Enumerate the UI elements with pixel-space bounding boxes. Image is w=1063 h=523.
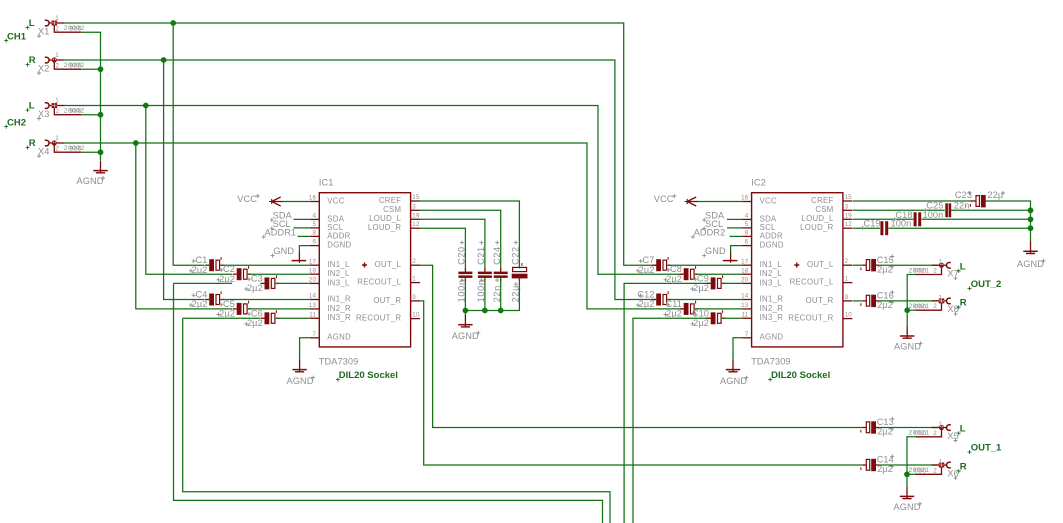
wire cap bottoms to AGND junction line xyxy=(465,278,519,311)
svg-text:2: 2 xyxy=(56,25,60,32)
wire net to IC1 IN3_L from bottom edge xyxy=(174,282,233,284)
svg-text:VCC: VCC xyxy=(654,194,674,204)
svg-text:13: 13 xyxy=(741,302,749,309)
svg-text:8: 8 xyxy=(745,230,749,237)
wire C7 to IC2 pin xyxy=(668,264,742,266)
op-amp/IC IC1 TDA7309 box xyxy=(319,193,410,347)
svg-text:IN1_R: IN1_R xyxy=(760,294,784,303)
svg-text:VCC: VCC xyxy=(237,194,257,204)
pin 5 (SCL) of IC2 xyxy=(742,221,776,232)
svg-text:1: 1 xyxy=(55,15,59,22)
junction OUT_1 ground xyxy=(904,471,910,477)
svg-text:2: 2 xyxy=(56,108,60,115)
pin 10 (RECOUT_R) of IC1 xyxy=(356,312,420,323)
svg-text:VCC: VCC xyxy=(760,196,777,205)
svg-text:TDA7309: TDA7309 xyxy=(319,356,359,366)
junction at C24 bottom xyxy=(498,308,504,314)
svg-text:X8: X8 xyxy=(947,304,958,314)
wire SDA to IC2 xyxy=(727,218,742,220)
svg-text:15: 15 xyxy=(412,194,420,201)
ground AGND xyxy=(900,487,914,499)
svg-text:DGND: DGND xyxy=(760,241,784,250)
svg-text:900: 900 xyxy=(69,26,82,33)
svg-text:20: 20 xyxy=(741,277,749,284)
wire X4 pin2 to ground bus xyxy=(81,151,101,153)
svg-text:2µ2: 2µ2 xyxy=(693,283,709,293)
power VCC xyxy=(685,197,699,206)
wire IC2 OUT_R to C16 xyxy=(853,300,862,302)
svg-text:C3: C3 xyxy=(251,273,263,283)
pin 15 (CREF) of IC2 xyxy=(811,194,852,205)
svg-text:IC2: IC2 xyxy=(751,178,766,188)
wire C13 to X5 xyxy=(879,427,939,429)
svg-text:AGND: AGND xyxy=(77,176,104,186)
wire ADDR2 to IC2 xyxy=(730,235,743,237)
svg-text:C2: C2 xyxy=(223,264,235,274)
pin 19 (LOUD_L) of IC1 xyxy=(369,212,420,223)
svg-text:R: R xyxy=(29,138,36,149)
capacitor C24 xyxy=(494,268,508,282)
wire VCC to IC2 pin 16 xyxy=(698,201,742,203)
svg-text:CH2: CH2 xyxy=(7,117,26,128)
svg-text:LOUD_L: LOUD_L xyxy=(369,214,401,223)
svg-text:RECOUT_R: RECOUT_R xyxy=(356,314,401,323)
pin 1 (RECOUT_L) of IC1 xyxy=(357,276,420,287)
capacitor C13 (2u2) xyxy=(861,421,879,433)
svg-text:C6: C6 xyxy=(251,308,263,318)
junction CH2-R xyxy=(133,140,139,146)
svg-text:2µ2: 2µ2 xyxy=(219,309,235,319)
svg-text:1: 1 xyxy=(939,421,943,428)
wire net to IC1 IN3_R from bottom edge xyxy=(183,317,260,319)
pin 6 (DGND) of IC1 xyxy=(310,239,352,250)
capacitor C4 (2u2) xyxy=(205,291,224,305)
svg-text:C20: C20 xyxy=(457,246,467,265)
capacitor C25 (22n) xyxy=(945,203,951,217)
wire IC2 LOUD_R through C19 xyxy=(853,227,880,229)
pin 13 (IN2_R) of IC2 xyxy=(741,302,783,313)
svg-text:DGND: DGND xyxy=(327,241,351,250)
wire IC1 OUT_R long route to C14 xyxy=(420,301,862,465)
pin 3 (CSM) of IC1 xyxy=(383,203,420,214)
svg-text:LOUD_R: LOUD_R xyxy=(800,223,833,232)
svg-text:ADDR: ADDR xyxy=(327,231,350,240)
svg-text:C4: C4 xyxy=(196,290,208,300)
svg-text:2: 2 xyxy=(56,145,60,152)
capacitor C9 (2u2) xyxy=(707,275,726,289)
svg-text:5: 5 xyxy=(745,221,749,228)
svg-text:C9: C9 xyxy=(697,273,709,283)
svg-text:C7: C7 xyxy=(643,255,655,265)
svg-text:3: 3 xyxy=(845,203,849,210)
svg-text:14: 14 xyxy=(741,293,749,300)
junction CSM rail xyxy=(1028,207,1034,213)
svg-text:IN1_R: IN1_R xyxy=(327,294,351,303)
svg-text:900: 900 xyxy=(69,146,82,153)
junction CH1-R xyxy=(161,57,167,63)
wire SCL to IC2 xyxy=(727,227,742,229)
capacitor C12 (2u2) xyxy=(652,291,671,305)
capacitor C16 (2u2) xyxy=(861,295,879,307)
svg-text:12: 12 xyxy=(412,221,420,228)
svg-text:IN3_R: IN3_R xyxy=(760,313,784,322)
svg-text:CSM: CSM xyxy=(383,205,401,214)
svg-text:10: 10 xyxy=(412,312,420,319)
svg-text:2: 2 xyxy=(933,268,937,275)
pin 7 (AGND) of IC1 xyxy=(310,331,351,342)
pin 2 (OUT_L) of IC2 xyxy=(807,258,852,269)
connector X2 (audio plug) xyxy=(45,57,81,69)
svg-text:13: 13 xyxy=(309,302,317,309)
wire C11 to IC2 pin xyxy=(696,308,743,310)
svg-text:11: 11 xyxy=(742,311,749,318)
svg-text:18: 18 xyxy=(741,267,749,274)
svg-text:TDA7309: TDA7309 xyxy=(751,356,791,366)
wire net to IC2 IN3_L from bottom edge xyxy=(624,283,710,523)
wire C3 to IC1 pin xyxy=(276,282,310,284)
pin 19 (LOUD_L) of IC2 xyxy=(801,212,852,223)
wire C16 to X8 xyxy=(879,300,939,302)
svg-text:2µ2: 2µ2 xyxy=(666,274,682,284)
pin 9 (OUT_R) of IC1 xyxy=(373,294,420,305)
capacitor C14 (2u2) xyxy=(861,459,879,471)
svg-text:7: 7 xyxy=(312,331,316,338)
connector X4 (audio plug) xyxy=(45,140,81,152)
svg-text:090: 090 xyxy=(914,430,927,437)
ground AGND xyxy=(1023,242,1037,254)
wire C1 to IC1 pin xyxy=(221,264,310,266)
wire SCL to IC1 xyxy=(294,227,310,229)
svg-text:2µ2: 2µ2 xyxy=(247,318,263,328)
junction LOUD_L rail xyxy=(1028,216,1034,222)
svg-text:ADDR2: ADDR2 xyxy=(694,227,726,237)
svg-text:22µ: 22µ xyxy=(988,190,1004,200)
svg-text:16: 16 xyxy=(309,195,317,202)
pin 20 (IN3_L) of IC2 xyxy=(741,277,782,288)
svg-text:VCC: VCC xyxy=(327,196,344,205)
svg-text:2µ2: 2µ2 xyxy=(877,264,893,274)
svg-text:1: 1 xyxy=(845,276,849,283)
svg-text:900: 900 xyxy=(69,63,82,70)
svg-text:11: 11 xyxy=(309,311,316,318)
pin 14 (IN1_R) of IC1 xyxy=(309,293,351,304)
wire SDA to IC1 xyxy=(294,218,310,220)
pin 17 (IN1_L) of IC2 xyxy=(741,258,782,269)
svg-text:IN2_L: IN2_L xyxy=(760,269,783,278)
svg-text:2µ2: 2µ2 xyxy=(639,299,655,309)
svg-text:1: 1 xyxy=(939,458,943,465)
svg-text:X2: X2 xyxy=(38,63,49,73)
svg-text:C10: C10 xyxy=(692,308,709,318)
capacitor C8 (2u2) xyxy=(680,266,699,280)
capacitor C11 (2u2) xyxy=(680,301,699,315)
svg-text:GND: GND xyxy=(705,246,726,256)
svg-text:X7: X7 xyxy=(947,269,958,279)
svg-text:1: 1 xyxy=(412,276,416,283)
pin 10 (RECOUT_R) of IC2 xyxy=(788,312,852,323)
pin 3 (CSM) of IC2 xyxy=(815,203,852,214)
svg-text:16: 16 xyxy=(741,195,749,202)
svg-text:C22: C22 xyxy=(511,246,521,265)
svg-text:X4: X4 xyxy=(38,146,49,156)
svg-text:X5: X5 xyxy=(947,431,958,441)
wire branch CH2-L down to C2 xyxy=(146,106,232,275)
svg-text:22n: 22n xyxy=(954,201,970,211)
ground AGND xyxy=(900,326,914,338)
svg-text:GND: GND xyxy=(273,246,294,256)
svg-text:AGND: AGND xyxy=(327,333,351,342)
pin 6 (DGND) of IC2 xyxy=(742,239,784,250)
pin 1 (RECOUT_L) of IC2 xyxy=(790,276,853,287)
wire ground bus of input connectors xyxy=(81,32,101,160)
pin 18 (IN2_L) of IC2 xyxy=(741,267,782,278)
svg-text:2: 2 xyxy=(933,467,937,474)
svg-text:RECOUT_L: RECOUT_L xyxy=(357,278,401,287)
junction CH1-L xyxy=(170,20,176,26)
wire IC1 LOUD_L to C21 xyxy=(420,219,485,268)
wire C15 to X7 xyxy=(879,264,939,266)
svg-text:CREF: CREF xyxy=(811,196,833,205)
svg-text:1: 1 xyxy=(55,98,59,105)
svg-text:2: 2 xyxy=(845,258,849,265)
junction CH2-L xyxy=(143,103,149,109)
svg-text:2µ2: 2µ2 xyxy=(877,300,893,310)
pin 17 (IN1_L) of IC1 xyxy=(309,258,350,269)
wire AGND drop of cap bank xyxy=(464,311,466,316)
svg-text:2µ2: 2µ2 xyxy=(247,283,263,293)
wire X5/X6 grounds to AGND xyxy=(907,437,916,487)
wire IC2 OUT_L to C15 xyxy=(853,264,862,266)
wire C9 to IC2 pin xyxy=(723,282,743,284)
svg-text:OUT_1: OUT_1 xyxy=(971,443,1002,454)
pin 20 (IN3_L) of IC1 xyxy=(309,277,350,288)
capacitor C6 (2u2) xyxy=(261,310,280,324)
svg-text:1: 1 xyxy=(55,52,59,59)
origin cross of IC2 xyxy=(794,263,799,268)
wire IC1 pin 7 AGND down xyxy=(300,338,310,360)
wire C8 to IC2 pin xyxy=(696,273,743,275)
svg-text:CSM: CSM xyxy=(815,205,833,214)
svg-text:DIL20 Sockel: DIL20 Sockel xyxy=(771,370,830,381)
junction at C21 bottom xyxy=(482,308,488,314)
wire X2 pin2 to ground bus xyxy=(81,68,101,70)
svg-text:17: 17 xyxy=(309,258,317,265)
svg-text:C1: C1 xyxy=(196,255,208,265)
svg-text:ADDR1: ADDR1 xyxy=(265,227,297,237)
svg-text:CREF: CREF xyxy=(379,196,401,205)
svg-text:RECOUT_R: RECOUT_R xyxy=(788,314,833,323)
svg-text:1: 1 xyxy=(939,259,943,266)
svg-text:AGND: AGND xyxy=(894,502,921,512)
svg-text:9: 9 xyxy=(412,294,416,301)
wire net CH2-R from X4 xyxy=(64,143,683,309)
capacitor C21 xyxy=(478,268,492,282)
svg-text:R: R xyxy=(960,298,967,309)
svg-text:C24: C24 xyxy=(492,246,502,265)
pin 4 (SDA) of IC2 xyxy=(742,213,777,224)
svg-text:090: 090 xyxy=(914,468,927,475)
svg-text:2µ2: 2µ2 xyxy=(666,309,682,319)
wire ADDR1 to IC1 xyxy=(298,235,310,237)
wire C6 to IC1 pin xyxy=(276,317,310,319)
wire net CH1-R from X2 xyxy=(64,60,656,300)
svg-text:2µ2: 2µ2 xyxy=(192,299,208,309)
svg-text:IN3_L: IN3_L xyxy=(760,278,783,287)
svg-text:IN2_R: IN2_R xyxy=(327,304,351,313)
wire net CH2-L from X3 xyxy=(64,106,683,275)
capacitor C2 (2u2) xyxy=(233,266,252,280)
svg-text:17: 17 xyxy=(741,258,749,265)
svg-text:1: 1 xyxy=(55,135,59,142)
wire C5 to IC1 pin xyxy=(249,308,310,310)
ground AGND xyxy=(726,360,740,372)
svg-text:RECOUT_L: RECOUT_L xyxy=(790,278,834,287)
svg-text:3: 3 xyxy=(412,203,416,210)
wire branch CH2-R down to C5 xyxy=(136,143,232,309)
junction ground bus at X3 xyxy=(98,112,104,118)
pin 11 (IN3_R) of IC2 xyxy=(742,311,784,322)
junction at C20 bottom / AGND drop xyxy=(463,308,469,314)
wire IC1 OUT_L long route to C13 xyxy=(420,265,862,427)
svg-text:2: 2 xyxy=(56,62,60,69)
svg-text:R: R xyxy=(29,55,36,66)
svg-text:4: 4 xyxy=(745,213,749,220)
svg-text:ADDR: ADDR xyxy=(760,231,783,240)
svg-text:2: 2 xyxy=(933,430,937,437)
svg-text:C19: C19 xyxy=(864,218,881,228)
origin cross of IC1 xyxy=(362,263,367,268)
svg-text:IN3_L: IN3_L xyxy=(327,278,350,287)
pin 7 (AGND) of IC2 xyxy=(742,331,783,342)
wire VCC to IC1 pin 16 xyxy=(283,201,310,203)
svg-text:9: 9 xyxy=(845,294,849,301)
svg-text:6: 6 xyxy=(745,239,749,246)
svg-text:19: 19 xyxy=(412,212,420,219)
capacitor C18 (100n) xyxy=(914,212,922,226)
capacitor C22 (polarized 22u) xyxy=(512,263,528,282)
svg-text:2: 2 xyxy=(412,258,416,265)
connector X7 (audio plug, mirrored) xyxy=(916,263,951,275)
connector X6 (audio plug, mirrored) xyxy=(916,462,951,474)
pin 16 (VCC) of IC2 xyxy=(741,195,777,206)
wire IC1 CREF to C22 xyxy=(420,201,519,268)
pin 8 (ADDR) of IC1 xyxy=(310,230,351,241)
svg-text:IN1_L: IN1_L xyxy=(760,260,783,269)
wire IC2 pin 7 AGND down xyxy=(733,338,742,360)
wire IC2 CREF through C23 to AGND rail xyxy=(853,200,972,202)
svg-text:14: 14 xyxy=(309,293,317,300)
junction LOUD_R rail xyxy=(1028,225,1034,231)
connector X1 (audio plug) xyxy=(45,20,81,32)
svg-text:15: 15 xyxy=(845,194,853,201)
wire C14 to X6 xyxy=(879,464,939,466)
svg-text:X1: X1 xyxy=(38,26,49,36)
capacitor C15 (2u2) xyxy=(861,259,879,271)
power VCC xyxy=(269,197,283,206)
svg-text:2µ2: 2µ2 xyxy=(877,427,893,437)
svg-text:19: 19 xyxy=(845,212,853,219)
svg-text:C12: C12 xyxy=(637,290,654,300)
pin 12 (LOUD_R) of IC2 xyxy=(800,221,852,232)
svg-text:AGND: AGND xyxy=(720,376,747,386)
pin 13 (IN2_R) of IC1 xyxy=(309,302,351,313)
wire X3 pin2 to ground bus xyxy=(81,114,101,116)
junction ground bus at X2 xyxy=(98,66,104,72)
pin 2 (OUT_L) of IC1 xyxy=(375,258,420,269)
capacitor C10 (2u2) xyxy=(707,310,726,324)
svg-text:2µ2: 2µ2 xyxy=(219,274,235,284)
ground AGND xyxy=(458,315,472,327)
op-amp/IC IC2 TDA7309 box xyxy=(752,193,843,347)
capacitor C3 (2u2) xyxy=(261,275,280,289)
pin 8 (ADDR) of IC2 xyxy=(742,230,783,241)
svg-text:LOUD_L: LOUD_L xyxy=(801,214,833,223)
wire branch CH1-L down to C1 xyxy=(173,23,204,265)
svg-text:8: 8 xyxy=(312,230,316,237)
svg-text:C21: C21 xyxy=(476,246,486,265)
svg-text:10: 10 xyxy=(845,312,853,319)
wire IC2 LOUD_L through C18 xyxy=(853,218,913,220)
pin 14 (IN1_R) of IC2 xyxy=(741,293,783,304)
wire GND to IC1 pin 6 (DGND) xyxy=(299,246,309,253)
junction OUT_2 ground xyxy=(904,307,910,313)
svg-text:R: R xyxy=(960,462,967,473)
wire C2 to IC1 pin xyxy=(249,273,310,275)
svg-text:100n: 100n xyxy=(891,218,912,228)
capacitor C19 (100n) xyxy=(880,221,888,235)
svg-text:AGND: AGND xyxy=(760,333,784,342)
ground GND symbol at IC2 xyxy=(730,253,732,261)
wire C12 to IC2 pin xyxy=(668,299,742,301)
wire IC1 CSM to C24 xyxy=(420,210,501,268)
wire IC2 CSM through C25 xyxy=(853,209,945,211)
svg-text:X6: X6 xyxy=(947,468,958,478)
svg-text:090: 090 xyxy=(914,268,927,275)
wire GND to IC2 pin 6 (DGND) xyxy=(731,246,743,253)
junction ground bus at X4 xyxy=(98,149,104,155)
svg-text:AGND: AGND xyxy=(452,331,479,341)
ground GND symbol at IC1 xyxy=(298,253,300,261)
wire net CH1-L from X1 to IC1/IC2 inputs xyxy=(64,23,656,265)
svg-text:AGND: AGND xyxy=(894,342,921,352)
pin 4 (SDA) of IC1 xyxy=(310,213,345,224)
connector X3 (audio plug) xyxy=(45,103,81,115)
svg-text:C5: C5 xyxy=(223,299,235,309)
svg-text:IN1_L: IN1_L xyxy=(327,260,350,269)
svg-text:6: 6 xyxy=(312,239,316,246)
svg-text:2µ2: 2µ2 xyxy=(639,265,655,275)
svg-text:12: 12 xyxy=(845,221,853,228)
svg-text:IN3_R: IN3_R xyxy=(327,313,351,322)
svg-text:OUT_L: OUT_L xyxy=(807,260,834,269)
pin 18 (IN2_L) of IC1 xyxy=(309,267,350,278)
svg-text:IN2_R: IN2_R xyxy=(760,304,784,313)
capacitor C1 (2u2) xyxy=(205,257,224,271)
capacitor C7 (2u2) xyxy=(652,257,671,271)
svg-text:OUT_L: OUT_L xyxy=(375,260,402,269)
svg-text:DIL20 Sockel: DIL20 Sockel xyxy=(339,370,398,381)
svg-text:CH1: CH1 xyxy=(7,31,27,42)
svg-text:900: 900 xyxy=(69,108,82,115)
svg-text:OUT_R: OUT_R xyxy=(806,296,834,305)
svg-text:090: 090 xyxy=(914,303,927,310)
capacitor C23 (22u) xyxy=(970,195,985,207)
pin 5 (SCL) of IC1 xyxy=(310,221,344,232)
svg-text:LOUD_R: LOUD_R xyxy=(368,223,401,232)
pin 11 (IN3_R) of IC1 xyxy=(309,311,351,322)
svg-text:2µ2: 2µ2 xyxy=(192,265,208,275)
svg-text:18: 18 xyxy=(309,267,317,274)
